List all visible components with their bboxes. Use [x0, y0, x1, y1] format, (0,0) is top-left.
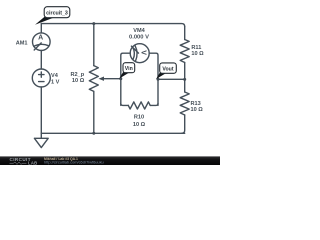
- svg-text:Vout: Vout: [162, 66, 173, 72]
- svg-text:VM4: VM4: [133, 28, 145, 34]
- wire middle branch bottom: [93, 91, 95, 133]
- wire right branch to R11: [184, 27, 186, 40]
- svg-text:10 Ω: 10 Ω: [191, 107, 204, 113]
- node junction top middle: [92, 22, 95, 25]
- wire V4 to bottom rail: [40, 87, 42, 133]
- wire R11 to junction: [184, 63, 186, 93]
- node junction right: [183, 78, 186, 81]
- svg-text:1 V: 1 V: [51, 79, 60, 85]
- wire R13 to bottom rail: [182, 115, 185, 133]
- wire loop left vertical: [121, 53, 130, 105]
- voltage source V4: [32, 69, 50, 87]
- resistor R11: [180, 40, 189, 63]
- svg-text:10 Ω: 10 Ω: [191, 51, 204, 57]
- svg-text:http://circuitlab.com/c6dr7iwf: http://circuitlab.com/c6dr7iwf6uuku: [44, 159, 104, 164]
- svg-text:V: V: [140, 50, 147, 55]
- ammeter AM1: [33, 33, 51, 51]
- svg-text:V4: V4: [51, 73, 59, 79]
- wire Vout to right branch: [158, 78, 185, 80]
- resistor R10: [128, 102, 150, 109]
- svg-text:R10: R10: [134, 115, 144, 121]
- node label circuit_3: [35, 7, 70, 25]
- wire ammeter to V4: [40, 51, 42, 70]
- node junction bottom middle: [92, 132, 95, 135]
- ground: [34, 133, 48, 147]
- wire loop right vertical: [149, 53, 158, 105]
- svg-text:A: A: [38, 35, 43, 42]
- node label Vin: [119, 63, 135, 79]
- voltmeter VM4: [130, 44, 149, 63]
- svg-text:10 Ω: 10 Ω: [133, 122, 146, 128]
- svg-text:10 Ω: 10 Ω: [72, 78, 85, 84]
- wire bottom rail: [41, 132, 184, 134]
- svg-text:R2_p: R2_p: [71, 72, 85, 78]
- potentiometer R2_p: [89, 66, 98, 92]
- wire middle branch top: [93, 24, 95, 66]
- resistor R13: [180, 92, 189, 115]
- svg-text:LAB: LAB: [28, 161, 38, 165]
- svg-text:circuit_3: circuit_3: [46, 10, 68, 16]
- wire top rail: [41, 24, 184, 27]
- svg-text:0.000 V: 0.000 V: [129, 34, 149, 40]
- svg-text:Vin: Vin: [125, 66, 133, 72]
- wiper wire: [103, 78, 121, 80]
- wire left branch top: [40, 24, 42, 33]
- wiper arrow head: [99, 77, 105, 81]
- wire loop bottom with R10: [121, 103, 129, 105]
- node Vin junction: [119, 77, 122, 80]
- node Vout junction: [157, 78, 160, 81]
- svg-text:AM1: AM1: [16, 40, 28, 46]
- node label Vout: [156, 63, 176, 79]
